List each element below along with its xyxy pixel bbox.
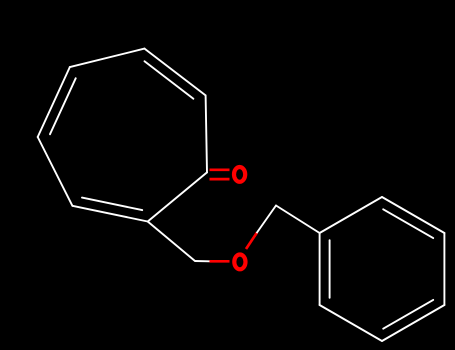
inner double bond hex LR-B — [383, 300, 433, 329]
inner double bond T-UR — [145, 61, 194, 98]
wire LR-B — [148, 172, 207, 221]
tropone ring (7-membered) outline — [38, 49, 207, 222]
wire UR-LR — [206, 95, 207, 172]
wire BL-L — [38, 137, 73, 206]
wire hex B-LL — [320, 305, 382, 341]
bond C2 to CH2 — [148, 222, 195, 262]
wire hex LL-UL — [319, 233, 321, 305]
wire B-BL — [72, 206, 147, 222]
bond CH2 to ether O (white part) — [195, 260, 210, 262]
bond ether O to CH2' (red part) — [246, 233, 257, 250]
wire hex T-UR — [382, 197, 444, 233]
ketone O label — [234, 167, 245, 182]
wire UL-T — [70, 49, 145, 68]
wire T-UR — [145, 49, 206, 96]
C=O ketone double bond (red) — [210, 170, 230, 179]
bond CH2 to ether O (red part) — [210, 260, 230, 263]
phenyl ring (right hexagon) — [320, 197, 445, 341]
inner double bond B-BL — [82, 198, 142, 211]
bond CH2' to phenyl — [276, 206, 320, 234]
wire hex UR-LR — [443, 233, 445, 305]
wire hex UL-T — [320, 197, 382, 233]
inner double bond hex T-UR — [383, 209, 433, 238]
bond ether O to CH2' (white part) — [257, 206, 276, 233]
wire hex LR-B — [382, 305, 444, 341]
ether O label — [234, 255, 245, 270]
wire L-UL — [38, 67, 70, 137]
inner double bond hex LL-UL — [329, 240, 331, 298]
inner double bond L-UL — [50, 78, 76, 134]
